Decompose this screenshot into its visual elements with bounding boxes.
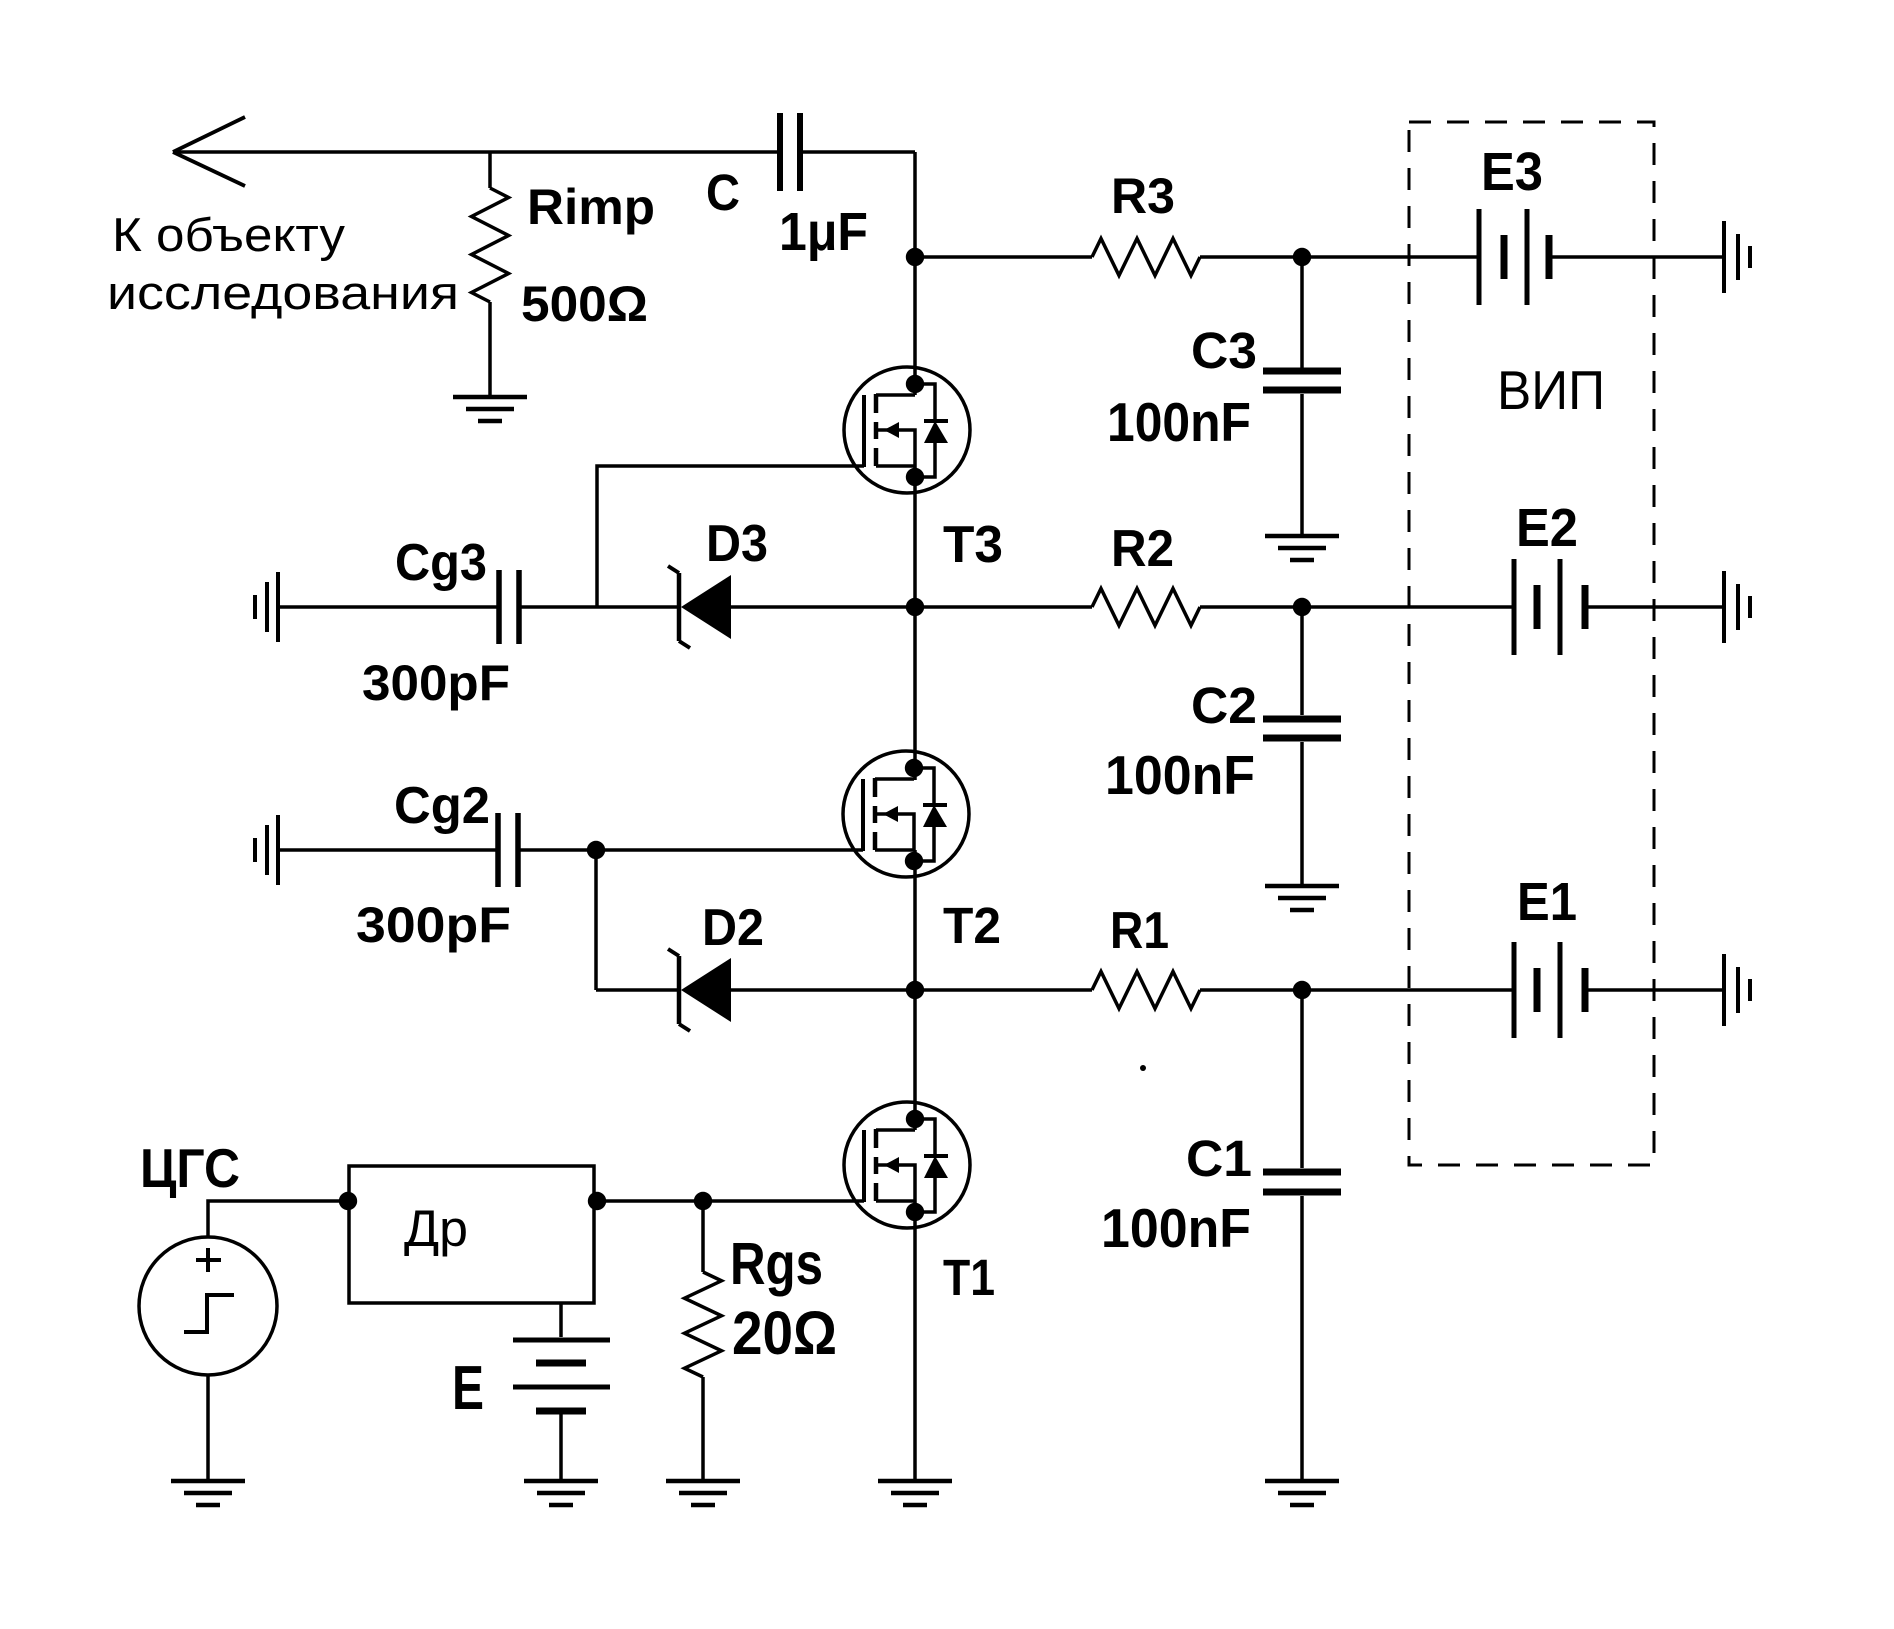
capacitor C1 xyxy=(1263,990,1341,1481)
diode D2 zener xyxy=(668,949,731,1031)
label E xyxy=(452,1354,484,1423)
ground below ЦГС xyxy=(171,1481,245,1505)
svg-text:100nF: 100nF xyxy=(1105,744,1255,806)
stray mark xyxy=(1140,1065,1146,1071)
svg-text:C: C xyxy=(706,164,740,221)
capacitor C3 xyxy=(1263,257,1341,536)
transistor T2 xyxy=(843,751,969,877)
label T2 xyxy=(943,897,1001,954)
svg-text:К объекту: К объекту xyxy=(112,208,346,261)
label ВИП xyxy=(1497,359,1605,421)
label C3 value 100nF xyxy=(1107,391,1251,453)
label E3 xyxy=(1481,142,1543,202)
svg-text:E1: E1 xyxy=(1517,872,1577,932)
svg-text:300pF: 300pF xyxy=(356,897,511,953)
ground right of E3 xyxy=(1724,221,1750,293)
svg-text:1μF: 1μF xyxy=(779,202,868,262)
ground below Rimp xyxy=(453,397,527,421)
wire E to ground xyxy=(559,1414,563,1479)
wire ground to Cg3 xyxy=(280,605,497,609)
label Cg2 value 300pF xyxy=(356,897,511,953)
capacitor C xyxy=(780,113,800,191)
label R1 xyxy=(1110,902,1169,960)
svg-text:100nF: 100nF xyxy=(1107,391,1251,453)
svg-text:Rimp: Rimp xyxy=(527,179,655,235)
source ЦГС pulse generator xyxy=(139,1237,277,1375)
wire ЦГС bottom to ground xyxy=(206,1375,210,1481)
resistor Rimp xyxy=(472,152,509,397)
svg-text:ВИП: ВИП xyxy=(1497,359,1605,421)
svg-text:C2: C2 xyxy=(1191,677,1257,734)
svg-text:300pF: 300pF xyxy=(362,655,510,711)
ground right of E1 xyxy=(1724,954,1750,1026)
battery E2 xyxy=(1514,559,1585,655)
wire E1 to ground xyxy=(1588,988,1723,992)
capacitor Cg3 xyxy=(499,570,519,644)
label C2 value 100nF xyxy=(1105,744,1255,806)
svg-text:D3: D3 xyxy=(706,515,768,573)
wire C to rail xyxy=(803,150,915,154)
label C1 value 100nF xyxy=(1101,1197,1251,1259)
svg-text:500Ω: 500Ω xyxy=(521,276,648,332)
resistor R2 xyxy=(915,589,1512,626)
label Rgs value 20Ω xyxy=(732,1299,837,1367)
label Rgs xyxy=(730,1231,823,1297)
ground right of E2 xyxy=(1724,571,1750,643)
ground below C2 xyxy=(1265,886,1339,910)
wire Др to battery E xyxy=(559,1303,563,1337)
battery E3 xyxy=(1479,209,1549,305)
svg-text:T2: T2 xyxy=(943,897,1001,954)
wire ЦГС to Др xyxy=(208,1201,349,1237)
label Др xyxy=(404,1200,468,1257)
svg-text:T3: T3 xyxy=(943,516,1003,574)
wire E2 to ground xyxy=(1588,605,1723,609)
svg-text:исследования: исследования xyxy=(107,266,459,319)
svg-text:Rgs: Rgs xyxy=(730,1231,823,1297)
transistor T3 xyxy=(844,367,970,493)
dashed box ВИП xyxy=(1409,122,1654,1165)
arrow output terminal xyxy=(173,117,245,186)
wire rail T1 source to ground xyxy=(913,1201,917,1481)
label C1 xyxy=(1186,1130,1252,1187)
wire Cg2 to T2 gate xyxy=(520,848,863,852)
label Cg3 xyxy=(395,534,487,592)
label E1 xyxy=(1517,872,1577,932)
ground left of Cg3 xyxy=(255,572,278,642)
svg-text:100nF: 100nF xyxy=(1101,1197,1251,1259)
label T3 xyxy=(943,516,1003,574)
label C xyxy=(706,164,740,221)
resistor Rgs xyxy=(685,1201,722,1481)
diode D3 zener xyxy=(668,566,731,648)
wire E3 to ground xyxy=(1552,255,1723,259)
junction node ЦГС / Др input xyxy=(339,1192,357,1210)
ground below C1 xyxy=(1265,1481,1339,1505)
block Др driver xyxy=(349,1166,594,1303)
label C2 xyxy=(1191,677,1257,734)
label D2 xyxy=(702,899,764,957)
junction node T2 source / R1 xyxy=(906,981,924,999)
wire D2 anode xyxy=(596,988,679,992)
svg-text:R2: R2 xyxy=(1111,520,1174,578)
svg-text:E2: E2 xyxy=(1516,498,1578,558)
wire rail T3 source to T2 drain xyxy=(913,466,917,780)
svg-text:20Ω: 20Ω xyxy=(732,1299,837,1367)
label D3 xyxy=(706,515,768,573)
junction node R2 / C2 / E2 xyxy=(1293,598,1311,616)
label C3 xyxy=(1191,322,1257,379)
ground below C3 xyxy=(1265,536,1339,560)
wire output line to probe xyxy=(173,150,777,154)
ground below E xyxy=(524,1481,598,1505)
junction node drain T3 / R3 xyxy=(906,248,924,266)
label node К объекту xyxy=(112,208,346,261)
svg-text:Cg2: Cg2 xyxy=(394,777,490,835)
ground below T1 xyxy=(878,1481,952,1505)
label node исследования xyxy=(107,266,459,319)
svg-text:C1: C1 xyxy=(1186,1130,1252,1187)
battery E1 xyxy=(1514,942,1585,1038)
svg-text:D2: D2 xyxy=(702,899,764,957)
label Cg3 value 300pF xyxy=(362,655,510,711)
svg-text:R1: R1 xyxy=(1110,902,1169,960)
label ЦГС xyxy=(140,1137,240,1199)
wire T3 gate to Cg3 node xyxy=(597,466,864,607)
wire Др output to T1 gate xyxy=(594,1199,864,1203)
resistor R3 xyxy=(915,239,1477,276)
junction node Cg2 / D2 xyxy=(587,841,605,859)
svg-text:ЦГС: ЦГС xyxy=(140,1137,240,1199)
capacitor Cg2 xyxy=(498,813,518,887)
wire ground to Cg2 xyxy=(280,848,496,852)
label C value 1μF xyxy=(779,202,868,262)
label T1 xyxy=(943,1249,995,1306)
junction node Rgs top xyxy=(694,1192,712,1210)
svg-text:Др: Др xyxy=(404,1200,468,1257)
junction node T3 source / R2 xyxy=(906,598,924,616)
transistor T1 xyxy=(844,1102,970,1228)
capacitor C2 xyxy=(1263,607,1341,886)
svg-text:E3: E3 xyxy=(1481,142,1543,202)
label Rimp value 500Ω xyxy=(521,276,648,332)
label R3 xyxy=(1111,168,1175,224)
wire D2 to rail xyxy=(731,988,915,992)
wire Cg2 node down to D2 xyxy=(594,850,598,990)
label E2 xyxy=(1516,498,1578,558)
junction node R3 / C3 / E3 xyxy=(1293,248,1311,266)
resistor R1 xyxy=(915,972,1512,1009)
ground below Rgs xyxy=(666,1481,740,1505)
svg-text:C3: C3 xyxy=(1191,322,1257,379)
wire D3 to rail xyxy=(731,605,915,609)
svg-text:Cg3: Cg3 xyxy=(395,534,487,592)
label R2 xyxy=(1111,520,1174,578)
label Cg2 xyxy=(394,777,490,835)
wire rail top segment xyxy=(913,152,917,395)
svg-text:R3: R3 xyxy=(1111,168,1175,224)
battery E xyxy=(513,1340,610,1411)
junction node Др output xyxy=(588,1192,606,1210)
ground left of Cg2 xyxy=(255,815,278,885)
junction node R1 / C1 / E1 xyxy=(1293,981,1311,999)
svg-text:E: E xyxy=(452,1354,484,1423)
wire Cg3 to D3 xyxy=(521,605,679,609)
label Rimp xyxy=(527,179,655,235)
svg-text:T1: T1 xyxy=(943,1249,995,1306)
wire rail T2 source to T1 drain xyxy=(913,850,917,1130)
